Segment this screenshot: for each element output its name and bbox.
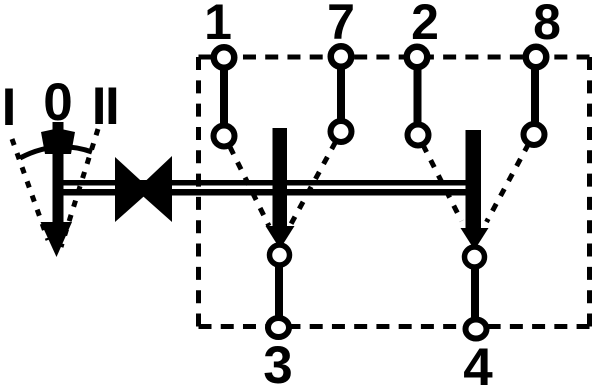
bridge A contact circle xyxy=(270,245,290,265)
terminal 2 contact circle xyxy=(408,125,429,146)
terminal 7 contact circle xyxy=(331,121,352,142)
dashed coupling line terminal 7 to bridge A xyxy=(291,142,336,224)
svg-text:I: I xyxy=(2,78,17,137)
svg-text:3: 3 xyxy=(263,336,292,387)
dashed coupling line terminal 8 to bridge B xyxy=(487,144,529,222)
terminal 1 stem xyxy=(220,60,228,128)
rotation arc xyxy=(20,147,92,158)
svg-text:8: 8 xyxy=(533,0,561,50)
terminal 8 outer circle xyxy=(526,47,547,68)
contact bridge arrow A xyxy=(266,128,295,249)
pin label 2 xyxy=(411,0,439,50)
terminal 8 stem xyxy=(531,60,539,128)
contact bridge arrow B xyxy=(461,130,489,250)
terminal 1 outer circle xyxy=(214,47,235,68)
dashed coupling line terminal 1 to bridge A xyxy=(230,147,269,226)
pin label 1 xyxy=(204,0,232,50)
terminal 8 contact circle xyxy=(524,124,545,145)
pin label 8 xyxy=(533,0,561,50)
position label 0 xyxy=(43,73,72,132)
dashed coupling line terminal 2 to bridge B xyxy=(423,145,462,221)
pin label 7 xyxy=(327,0,355,50)
pin label 3 xyxy=(263,336,292,387)
lever arrow (position 0) xyxy=(41,122,73,257)
pin label 4 xyxy=(463,338,493,387)
svg-text:1: 1 xyxy=(204,0,232,50)
terminal 3 stem xyxy=(275,263,283,318)
svg-text:2: 2 xyxy=(411,0,439,50)
position label I xyxy=(2,78,17,137)
svg-text:II: II xyxy=(92,77,118,136)
bridge B contact circle xyxy=(465,247,485,267)
rotation arc arrowhead right xyxy=(64,130,76,155)
switch enclosure (dashed box) xyxy=(199,57,590,327)
dashed lever position line to II xyxy=(61,129,98,247)
svg-text:7: 7 xyxy=(327,0,355,50)
terminal 4 stem xyxy=(471,265,479,318)
rotation arc arrowhead left xyxy=(41,130,53,155)
terminal 7 outer circle xyxy=(331,46,352,67)
detent coupling (bowtie) xyxy=(115,156,172,222)
terminal 2 outer circle xyxy=(407,47,428,68)
terminal 2 stem xyxy=(414,60,422,128)
terminal 4 outer circle xyxy=(466,320,487,339)
terminal 7 stem xyxy=(337,60,345,128)
svg-text:4: 4 xyxy=(463,338,493,387)
actuator shaft (double line) xyxy=(62,180,466,196)
terminal 1 contact circle xyxy=(214,126,235,147)
terminal 3 outer circle xyxy=(268,318,289,337)
dashed lever position line to I xyxy=(12,139,48,240)
position label II xyxy=(92,77,118,136)
